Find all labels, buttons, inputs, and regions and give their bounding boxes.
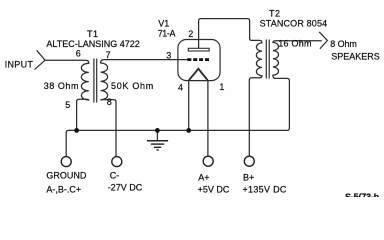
svg-text:-27V DC: -27V DC [108, 182, 143, 192]
svg-text:8: 8 [107, 97, 112, 107]
svg-text:C-: C- [110, 171, 120, 181]
svg-text:B+: B+ [243, 173, 254, 183]
svg-text:S-5(73-b: S-5(73-b [345, 192, 380, 197]
svg-text:V1: V1 [158, 18, 169, 28]
svg-text:71-A: 71-A [158, 28, 176, 38]
svg-text:T2: T2 [269, 9, 281, 19]
svg-text:INPUT: INPUT [5, 59, 34, 69]
svg-text:38 Ohm: 38 Ohm [44, 81, 79, 91]
svg-text:A+: A+ [198, 173, 209, 183]
svg-text:6: 6 [76, 49, 81, 59]
svg-text:STANCOR 8054: STANCOR 8054 [260, 19, 328, 29]
svg-text:SPEAKERS: SPEAKERS [331, 51, 380, 61]
svg-text:8 Ohm: 8 Ohm [330, 39, 357, 49]
svg-text:T1: T1 [87, 29, 99, 39]
svg-text:+135V DC: +135V DC [243, 185, 287, 195]
svg-text:3: 3 [166, 51, 171, 61]
svg-text:ALTEC-LANSING 4722: ALTEC-LANSING 4722 [46, 39, 139, 49]
svg-text:16 Ohm: 16 Ohm [278, 38, 312, 48]
svg-text:50K Ohm: 50K Ohm [111, 81, 154, 91]
svg-text:GROUND: GROUND [46, 171, 86, 181]
svg-text:A-,B-.C+: A-,B-.C+ [46, 184, 81, 194]
svg-text:2: 2 [188, 29, 193, 39]
svg-text:+5V DC: +5V DC [198, 185, 230, 195]
svg-text:4: 4 [178, 82, 183, 92]
svg-text:1: 1 [219, 82, 224, 92]
svg-text:5: 5 [65, 100, 70, 110]
svg-text:7: 7 [106, 50, 111, 60]
